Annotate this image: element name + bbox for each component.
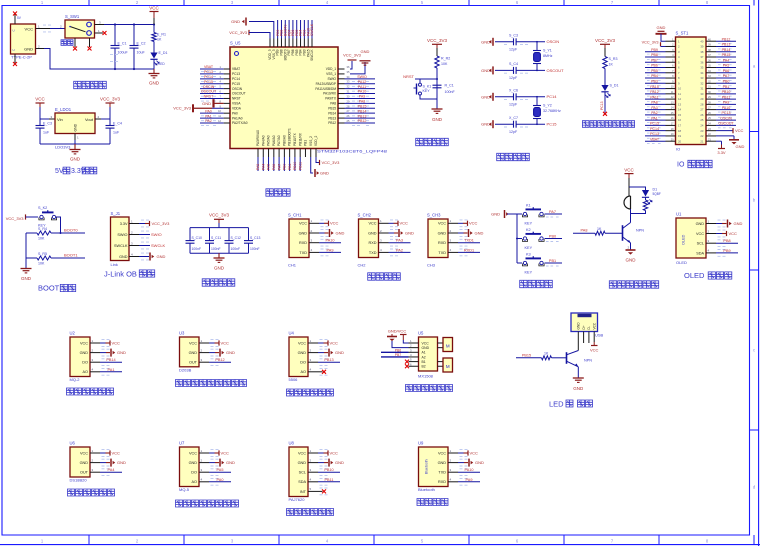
no-connect mark switch lower pin [103, 31, 107, 35]
power port VCC_3V3 at U5 VDD_3 [229, 30, 270, 39]
svg-text:VCC_3V3: VCC_3V3 [100, 97, 121, 102]
svg-text:PA3/RX/A0: PA3/RX/A0 [256, 130, 260, 146]
svg-text:VCC: VCC [422, 341, 430, 345]
svg-text:VCC: VCC [438, 222, 446, 226]
svg-text:B1: B1 [422, 360, 426, 364]
svg-text:12: 12 [678, 97, 682, 101]
svg-text:GND: GND [438, 231, 447, 235]
svg-text:RXD: RXD [299, 241, 307, 245]
IC U5 motor driver pins [409, 339, 430, 369]
svg-text:PB13: PB13 [324, 358, 333, 362]
caption J-Link OB接口 [104, 270, 155, 279]
svg-text:38: 38 [700, 50, 704, 54]
power port VCC_3V3 at U5 VDDA [173, 104, 223, 112]
svg-text:PA10: PA10 [358, 90, 367, 94]
svg-text:AO: AO [83, 370, 89, 374]
svg-text:PA6: PA6 [723, 69, 730, 73]
crystal S_Y2 32.768KHz [533, 97, 561, 124]
svg-text:VCC: VCC [735, 128, 744, 133]
net label OSCOUT [547, 68, 565, 73]
svg-text:D203B: D203B [179, 367, 192, 372]
svg-text:17: 17 [678, 124, 682, 128]
power port VCC_3V3 at U5 VDD_2 [316, 157, 340, 165]
svg-text:35: 35 [700, 66, 704, 70]
connector S_CH1 pins [299, 219, 329, 256]
svg-text:S_R3: S_R3 [609, 57, 618, 61]
svg-text:PB1/BOOT1: PB1/BOOT1 [288, 128, 292, 146]
svg-text:PA3: PA3 [396, 239, 403, 243]
connector S_J1 pins [114, 219, 149, 260]
resistor E_R1 1K [152, 25, 166, 42]
wire crystal row 2 right [504, 70, 545, 74]
power port VCC_3V3 at U5 VDD_1 [343, 53, 362, 70]
net label PB10 (U8 pin 3) [318, 468, 340, 472]
svg-text:S_R4: S_R4 [38, 227, 47, 231]
net label BOOT1 [64, 253, 78, 258]
svg-text:S_D1: S_D1 [610, 84, 619, 88]
svg-text:RXD1: RXD1 [464, 248, 474, 252]
power port VCC_3V3 IO pin2 [642, 41, 666, 47]
svg-text:PA8: PA8 [330, 102, 336, 106]
svg-text:PB11: PB11 [298, 162, 302, 170]
transistor Q1 NPN alarm [623, 220, 645, 244]
svg-text:VCC_3V3: VCC_3V3 [173, 106, 192, 111]
svg-text:LED: LED [549, 399, 564, 408]
svg-text:12pF: 12pF [509, 47, 518, 51]
push button K3 KEY [517, 252, 544, 274]
svg-text:40: 40 [700, 39, 704, 43]
svg-text:E_C4: E_C4 [113, 122, 122, 126]
caption 晶振电路 [497, 153, 530, 160]
ground GND S_CH1 [319, 229, 345, 237]
svg-text:PB15: PB15 [328, 106, 336, 110]
svg-text:GND: GND [736, 144, 745, 149]
no-connect mark J1 bottom [13, 62, 17, 66]
resistor R8 1K LED [542, 351, 567, 360]
svg-text:11: 11 [678, 92, 681, 96]
svg-text:U5: U5 [418, 331, 424, 336]
net label PB13 (U4 pin 3) [318, 358, 340, 362]
svg-text:PA8: PA8 [581, 229, 588, 233]
svg-text:S_ST1: S_ST1 [676, 31, 689, 36]
svg-text:GND: GND [119, 255, 128, 259]
svg-text:PC15: PC15 [650, 122, 659, 126]
power port VCC U9 [458, 450, 478, 455]
svg-text:LED: LED [159, 62, 166, 66]
no-connect mark U4 pin 4 [318, 370, 326, 374]
svg-text:OUT: OUT [80, 471, 89, 475]
svg-text:Vout: Vout [85, 117, 94, 122]
svg-text:PB14: PB14 [722, 48, 731, 52]
svg-text:5QBF: 5QBF [653, 192, 661, 196]
sensor module U4 (5506) body [289, 330, 309, 382]
svg-text:PB7: PB7 [651, 58, 658, 62]
svg-text:VCC: VCC [149, 6, 159, 11]
svg-text:VCC: VCC [112, 340, 121, 345]
svg-text:DO: DO [82, 361, 88, 365]
capacitor X_C6 12pF [509, 89, 518, 107]
net label PA10 (U9 pin 3) [458, 468, 480, 472]
transistor Q2 NPN LED light [567, 351, 593, 367]
svg-text:21: 21 [700, 139, 704, 143]
svg-text:24: 24 [700, 124, 704, 128]
wire VCC to LDO Vin [40, 107, 55, 119]
svg-text:34: 34 [700, 71, 704, 75]
svg-text:GND: GND [368, 231, 377, 235]
power port VCC OLED [716, 231, 737, 236]
LED D1 alarm [642, 188, 661, 204]
svg-text:PC15: PC15 [232, 82, 240, 86]
svg-text:SWCLK: SWCLK [114, 244, 128, 248]
svg-text:GND: GND [298, 351, 307, 355]
resistor R7 1K alarm [595, 227, 623, 235]
wire USB GND pin to collector [577, 332, 579, 351]
svg-text:PA12: PA12 [358, 80, 367, 84]
power port VCC U4 [318, 340, 338, 345]
svg-text:PA7: PA7 [549, 210, 556, 214]
svg-text:PB14: PB14 [328, 111, 336, 115]
capacitor X_C7 12pF [509, 116, 518, 134]
svg-text:GND: GND [149, 81, 160, 86]
caption BOOT电路 [38, 284, 76, 293]
svg-text:PB1: PB1 [288, 163, 292, 170]
wire keys left rail [516, 214, 518, 263]
wire power circuit ground rail [36, 44, 155, 70]
svg-text:D-: D- [587, 326, 591, 329]
capacitor S_C12 100nF [225, 228, 241, 254]
svg-text:U8: U8 [289, 440, 295, 445]
svg-text:A1: A1 [422, 351, 426, 355]
svg-text:PB15: PB15 [358, 104, 367, 108]
svg-text:PB9: PB9 [651, 48, 658, 52]
sensor module U3 pins [189, 339, 219, 366]
sensor module U8 pins [298, 449, 328, 495]
svg-text:VDDA: VDDA [232, 106, 242, 110]
svg-text:1uF: 1uF [43, 131, 50, 135]
svg-text:VCC: VCC [438, 451, 446, 455]
svg-text:KEY: KEY [525, 270, 533, 274]
svg-text:100nF: 100nF [192, 247, 202, 251]
svg-text:PA5/A0: PA5/A0 [267, 135, 271, 146]
svg-text:Bluetooth: Bluetooth [418, 487, 435, 492]
svg-text:PA7/A0: PA7/A0 [277, 135, 281, 146]
svg-text:R_C1: R_C1 [445, 84, 454, 88]
caption 5V转3.3V电路 [55, 167, 97, 175]
resistor S_R4 10K [26, 227, 85, 241]
svg-text:PC13: PC13 [650, 132, 659, 136]
svg-text:PA15: PA15 [650, 85, 659, 89]
svg-text:AO: AO [301, 370, 307, 374]
svg-text:36: 36 [700, 60, 704, 64]
wire to LED [604, 69, 606, 86]
power port VCC U7 [209, 450, 229, 455]
svg-text:GND: GND [481, 39, 490, 44]
capacitor E_C3 1uF (LDO in) [36, 119, 53, 144]
svg-text:8MHz: 8MHz [543, 54, 553, 58]
svg-text:S_CH1: S_CH1 [288, 212, 302, 217]
svg-text:PB10: PB10 [324, 468, 333, 472]
net label PA4 (U6 pin 3) [100, 468, 122, 472]
no-connect mark U8 pin 5 [318, 489, 326, 493]
svg-text:PA2: PA2 [651, 111, 658, 115]
svg-text:5V: 5V [55, 168, 64, 175]
svg-text:PC13: PC13 [722, 111, 731, 115]
svg-text:GND: GND [298, 461, 307, 465]
svg-text:PB0/A0: PB0/A0 [282, 135, 286, 146]
svg-text:OSCOUT: OSCOUT [547, 68, 565, 73]
svg-text:PA0: PA0 [232, 111, 238, 115]
caption 程序运行指示灯 [582, 121, 634, 128]
radio module U9 pins [438, 449, 468, 485]
svg-text:GND: GND [202, 101, 211, 106]
ground GND U9 [458, 459, 484, 467]
svg-text:PC13: PC13 [204, 70, 213, 74]
power port VCC_3V3 J-Link [139, 221, 170, 226]
net label NRST [403, 74, 414, 79]
svg-text:GND: GND [696, 222, 705, 226]
svg-text:GND: GND [432, 117, 443, 122]
capacitor S_C11 100nF [205, 228, 221, 254]
svg-text:OSCOUT: OSCOUT [201, 90, 217, 94]
ground GND filter [214, 253, 225, 270]
caption 蓝牙模块 [417, 499, 448, 506]
display module U1 OLED body [676, 211, 706, 265]
svg-text:c: c [753, 348, 755, 353]
svg-text:SWCLK: SWCLK [151, 243, 166, 248]
svg-text:U9: U9 [418, 440, 424, 445]
svg-text:15: 15 [678, 113, 682, 117]
svg-text:10uF: 10uF [137, 51, 146, 55]
svg-text:VCC: VCC [592, 322, 596, 329]
svg-text:E_R1: E_R1 [157, 33, 166, 37]
svg-text:OSCIN: OSCIN [720, 116, 732, 120]
motor M1 [438, 338, 453, 352]
svg-text:Vin: Vin [57, 117, 63, 122]
caption 主芯片 [266, 189, 290, 196]
svg-text:RXD: RXD [438, 241, 446, 245]
svg-text:VCC_3V3: VCC_3V3 [152, 221, 171, 226]
svg-text:VCC: VCC [299, 222, 307, 226]
wire J1 bottom stub [14, 54, 16, 63]
svg-text:VCC: VCC [221, 340, 230, 345]
net label PC15 [547, 122, 558, 127]
svg-text:SCL: SCL [697, 242, 704, 246]
connector U10 USB socket body [571, 313, 604, 338]
wire crystal row 1 right [504, 41, 545, 45]
caption OLED显示屏 [684, 271, 732, 280]
net label SWIO [139, 232, 162, 237]
svg-text:S_C10: S_C10 [192, 236, 202, 240]
ground GND IO pin22 [716, 136, 745, 149]
wire button to BOOT0 row [56, 217, 62, 234]
svg-text:PB12: PB12 [328, 121, 336, 125]
svg-text:100nF: 100nF [211, 247, 221, 251]
svg-text:SWCLK: SWCLK [310, 49, 314, 61]
caption 烟雾检测模块 [67, 388, 114, 395]
svg-text:GND: GND [189, 461, 198, 465]
svg-text:VCC: VCC [696, 232, 704, 236]
svg-text:10K: 10K [38, 262, 45, 266]
ground GND IO pin1 [656, 25, 667, 41]
svg-text:GND: GND [573, 386, 584, 391]
svg-text:PA2: PA2 [205, 119, 212, 123]
svg-text:PA1: PA1 [651, 116, 658, 120]
svg-text:GND: GND [481, 68, 490, 73]
caption 电源电路 [74, 81, 107, 88]
svg-text:PA4: PA4 [261, 164, 265, 170]
switch S_SW1 [65, 14, 95, 38]
IC U5 MX1508 motor driver body [418, 331, 438, 379]
wires IO left nets [645, 48, 666, 144]
wire crystal row 1 left [495, 41, 514, 43]
svg-text:30: 30 [700, 92, 704, 96]
svg-text:SWIO: SWIO [328, 77, 337, 81]
capacitor S_C13 100nF [244, 228, 260, 254]
voltage regulator E_LDO1 [55, 107, 95, 150]
svg-text:VCC: VCC [470, 450, 479, 455]
caption 串口电路 [368, 273, 401, 280]
net label PB1 key 3 [545, 259, 563, 266]
resistor R_R2 10K [435, 56, 450, 68]
svg-text:1K: 1K [544, 351, 549, 355]
svg-text:PA6/A0: PA6/A0 [272, 135, 276, 146]
svg-text:VDD_2: VDD_2 [314, 135, 318, 146]
svg-text:NPN: NPN [584, 359, 592, 363]
svg-text:29: 29 [700, 97, 704, 101]
net label PA9 (U9 pin 4) [458, 478, 480, 482]
svg-text:PB4: PB4 [651, 74, 658, 78]
ground GND reset [432, 109, 443, 122]
ground GND J-Link [139, 253, 166, 261]
svg-text:GND: GND [117, 460, 126, 465]
svg-text:PB10: PB10 [722, 90, 731, 94]
LED E_D1 [150, 51, 167, 66]
svg-text:GND: GND [24, 46, 33, 51]
svg-text:PB11: PB11 [324, 478, 333, 482]
ground GND U6 [100, 459, 126, 467]
sensor module U2 pins [80, 339, 110, 375]
svg-text:OSCOUT: OSCOUT [232, 92, 246, 96]
ground GND S_CH3 [458, 229, 484, 237]
svg-text:GND: GND [80, 461, 89, 465]
svg-text:13: 13 [678, 102, 682, 106]
svg-text:U: U [13, 29, 15, 33]
svg-text:VCC: VCC [400, 221, 409, 226]
svg-text:D1: D1 [653, 188, 658, 192]
caption IO拓展口 [677, 160, 712, 168]
wire motor GND feed [392, 341, 409, 348]
caption 温度检测模块 [68, 489, 115, 496]
wires U5 bottom net stubs [256, 157, 302, 171]
svg-text:AO: AO [192, 480, 198, 484]
net label PA8 alarm base [573, 229, 595, 234]
svg-text:PC14: PC14 [204, 75, 213, 79]
power port VCC U8 [318, 450, 338, 455]
svg-text:PA3: PA3 [651, 106, 658, 110]
svg-text:OSCOUT: OSCOUT [718, 122, 734, 126]
connector S_J1 J-Link OB body [111, 211, 130, 267]
ground GND crystal row 3 [481, 93, 493, 101]
connector S_CH2 body [358, 212, 379, 267]
svg-text:12pF: 12pF [509, 76, 518, 80]
net label PB12 (U3 pin 3) [209, 358, 231, 362]
svg-text:PA1: PA1 [108, 368, 115, 372]
svg-text:NRST: NRST [204, 95, 215, 99]
svg-text:PA10: PA10 [722, 106, 731, 110]
svg-text:GND: GND [422, 346, 430, 350]
svg-text:PB3: PB3 [651, 80, 658, 84]
svg-text:VCC_3V3: VCC_3V3 [642, 41, 659, 45]
svg-text:GND: GND [231, 19, 240, 24]
svg-text:PB12: PB12 [215, 358, 224, 362]
svg-text:TXD: TXD [438, 471, 446, 475]
wire LED to net PC13 [600, 92, 605, 113]
svg-text:E_C3: E_C3 [43, 122, 52, 126]
svg-text:GND: GND [335, 460, 344, 465]
svg-text:VBAT: VBAT [204, 65, 214, 69]
svg-text:GND: GND [157, 254, 166, 259]
power port VCC_3V3 reset [427, 38, 448, 56]
net label PA2 [389, 248, 411, 252]
svg-text:CH3: CH3 [427, 263, 436, 268]
svg-text:VCC: VCC [368, 222, 376, 226]
ground GND OLED [716, 220, 743, 228]
power port VCC_3V3 filter [209, 213, 230, 228]
svg-text:PA9: PA9 [466, 478, 473, 482]
label 开关 under switch [61, 40, 73, 46]
svg-text:37: 37 [700, 55, 704, 59]
svg-text:S_CH3: S_CH3 [427, 212, 441, 217]
svg-text:GND: GND [80, 351, 89, 355]
sensor module U6 (DS18B20) body [70, 440, 91, 482]
svg-text:PB0: PB0 [283, 163, 287, 170]
ground GND U4 [318, 349, 344, 357]
net label PB15 LED base [516, 353, 542, 358]
svg-text:PB13: PB13 [722, 43, 731, 47]
svg-text:PB10/TX: PB10/TX [293, 132, 297, 146]
wire LED to ground rail [153, 59, 155, 69]
svg-text:MQ-5: MQ-5 [179, 487, 190, 492]
ground GND U8 [318, 459, 344, 467]
svg-text:TYPE-C-2P: TYPE-C-2P [11, 55, 32, 60]
svg-text:M: M [446, 364, 450, 369]
svg-text:PA5: PA5 [217, 468, 224, 472]
power port VCC alarm [624, 167, 634, 187]
svg-text:X_C6: X_C6 [509, 89, 518, 93]
svg-text:KEY: KEY [525, 246, 533, 250]
svg-text:VCC: VCC [590, 348, 599, 353]
svg-text:VCC_3V3: VCC_3V3 [322, 160, 341, 165]
svg-text:DO: DO [191, 471, 197, 475]
svg-text:10K: 10K [441, 62, 448, 66]
svg-text:27: 27 [700, 108, 704, 112]
svg-text:INT: INT [300, 490, 307, 494]
wire resistor to LED [153, 42, 155, 53]
svg-text:VCC: VCC [80, 451, 88, 455]
svg-text:3.3V: 3.3V [120, 222, 128, 226]
svg-text:PB0: PB0 [549, 234, 556, 238]
svg-text:S_CH2: S_CH2 [358, 212, 372, 217]
net label PA3 [389, 239, 411, 243]
svg-text:PB15: PB15 [722, 53, 731, 57]
svg-text:1K: 1K [609, 63, 614, 67]
wire switch bottom stub 1 [74, 38, 76, 47]
IC U5 STM32F103C8T6 main chip body [230, 40, 388, 153]
svg-text:OSCIN: OSCIN [232, 87, 243, 91]
svg-text:RXD: RXD [438, 480, 446, 484]
motor M2 [438, 358, 453, 372]
svg-text:100nF: 100nF [250, 247, 260, 251]
